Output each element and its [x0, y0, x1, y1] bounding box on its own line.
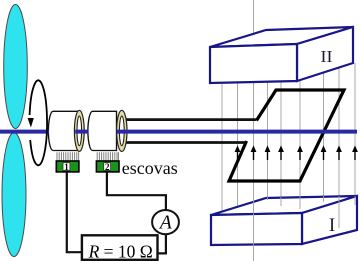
brush 2 bristles [97, 152, 118, 161]
coil loop [229, 90, 344, 181]
slip ring 2 [117, 110, 127, 151]
field line B1 [221, 83, 223, 212]
shaft axis blue segment left [0, 130, 49, 134]
brush terminal 2 [96, 161, 119, 172]
field line B6 segment into magnet I [299, 196, 301, 209]
rotation arrow arc [30, 80, 47, 165]
slip ring cylinder 1 body [48, 111, 79, 150]
field arrow A1 [235, 145, 241, 160]
svg-text:I: I [329, 215, 335, 236]
magnet I front face [211, 213, 302, 245]
brush terminal 1 [56, 161, 79, 172]
resistor box [82, 235, 158, 259]
svg-text:II: II [321, 47, 333, 66]
field line B3 [253, 0, 255, 197]
magnet II right face [297, 27, 353, 81]
shaft axis blue segment right [117, 130, 357, 134]
rotation arrow head [28, 118, 34, 128]
svg-text:escovas: escovas [122, 158, 178, 178]
slip ring cylinder 2 body [88, 111, 117, 150]
shaft axis blue segment middle [75, 130, 88, 134]
brush 1 bristles [57, 152, 79, 161]
wire from brush 1 to resistor [67, 172, 81, 252]
field line B9 segment into magnet I [354, 196, 356, 205]
field line B3 lower segment over magnet I [253, 197, 255, 261]
field line B6 [299, 81, 301, 197]
field arrow A4 [278, 145, 284, 160]
slip ring 1 [74, 110, 84, 151]
field arrow A2 [251, 145, 257, 160]
field line B8 [338, 68, 340, 197]
field line B7 [323, 73, 325, 197]
field line B4 segment into magnet I [267, 197, 269, 200]
svg-text:R = 10 Ω: R = 10 Ω [88, 242, 153, 261]
field line B5 segment into magnet I [280, 197, 282, 206]
field arrow A8 [352, 145, 358, 160]
magnet II top face [210, 27, 353, 47]
wire from ammeter to resistor [157, 234, 166, 253]
field line B5 [280, 82, 282, 197]
field line B9 [354, 63, 356, 197]
magnet I right face [302, 196, 357, 244]
magnet I top face [211, 196, 357, 215]
svg-text:1: 1 [64, 162, 69, 172]
svg-text:2: 2 [105, 162, 110, 172]
magnet II front face [210, 44, 297, 83]
shaft rod top line [121, 118, 256, 121]
shaft rod bottom line [121, 141, 246, 144]
turbine blade top [4, 5, 28, 129]
field arrow A7 [336, 145, 342, 160]
ammeter A [152, 210, 179, 234]
field arrow A6 [321, 145, 327, 160]
svg-text:A: A [158, 213, 172, 234]
field arrow A5 [297, 145, 303, 160]
field arrow A3 [265, 145, 271, 160]
field line B2 [237, 83, 239, 207]
wire from brush 2 to ammeter [107, 172, 166, 210]
field line B7 segment into magnet I [323, 196, 325, 202]
turbine blade bottom [2, 133, 26, 257]
field line B4 [267, 82, 269, 197]
field line B8 segment into magnet I [338, 196, 340, 228]
